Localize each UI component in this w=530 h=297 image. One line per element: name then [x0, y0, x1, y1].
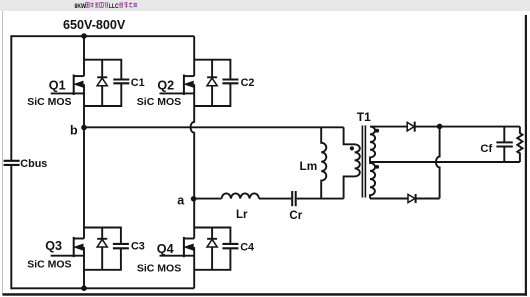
svg-text:b: b [70, 124, 78, 138]
frame left border [2, 11, 3, 295]
load resistor [517, 127, 522, 162]
svg-text:C1: C1 [131, 77, 145, 89]
diode D1 [407, 122, 415, 132]
wire Cr to primary [297, 198, 344, 200]
capacitor C1 [113, 80, 129, 84]
svg-text:a: a [177, 193, 185, 207]
snubber box Q4 [194, 228, 230, 244]
node: top bus junction [81, 33, 87, 39]
node a junction [191, 196, 197, 202]
svg-text:SiC MOS: SiC MOS [27, 258, 71, 270]
svg-text:C2: C2 [241, 77, 255, 89]
svg-text:SiC MOS: SiC MOS [137, 96, 181, 108]
capacitor Cr [292, 191, 296, 206]
body diode of Q3 [97, 228, 107, 270]
svg-text:650V-800V: 650V-800V [63, 18, 126, 32]
wire left leg: Q1 source through node b to Q3 drain [83, 84, 85, 238]
transformer T1 secondary windings (center tapped) [370, 127, 375, 199]
wire Q1 drain from top bus [83, 36, 85, 76]
snubber box Q1 (top, right with C1 gap, bottom) [84, 60, 121, 79]
wire secondary top to D1 [370, 126, 407, 128]
wire Lr to Cr [259, 198, 291, 200]
body diode of Q4 [207, 228, 217, 270]
transformer T1 core [361, 125, 363, 197]
wire node a to Lr [194, 198, 221, 200]
title bar [0, 0, 530, 11]
transistor Q3 [51, 237, 84, 257]
svg-text:T1: T1 [357, 110, 371, 124]
inductor Lm [321, 127, 326, 198]
wire top bus [11, 35, 194, 37]
capacitor Cbus [4, 161, 20, 165]
polarity dot T1 secondary top [375, 129, 379, 133]
capacitor C3 [113, 244, 129, 248]
node: bottom bus junction [81, 285, 87, 291]
snubber box Q3 [84, 228, 121, 244]
svg-text:Lm: Lm [300, 159, 318, 173]
svg-text:C4: C4 [240, 242, 254, 254]
wire D2 to return vertical [416, 198, 440, 200]
svg-text:Q2: Q2 [157, 78, 174, 92]
body diode of Q2 [207, 60, 217, 106]
wire node b to transformer [84, 126, 344, 128]
wire secondary bottom to D2 [370, 198, 408, 200]
snubber box Q2 [194, 60, 230, 79]
svg-text:LLC: LLC [109, 4, 119, 10]
capacitor C2 [222, 80, 238, 84]
frame bottom border [3, 293, 528, 296]
svg-text:Lr: Lr [236, 209, 248, 221]
transistor Q1 [51, 75, 84, 96]
svg-text:Q1: Q1 [49, 78, 66, 92]
wire left bus upper [10, 35, 12, 160]
body diode of Q1 [97, 60, 107, 106]
wire bottom bus [11, 287, 194, 289]
svg-text:8KW: 8KW [75, 4, 87, 10]
wire Q2 drain from top bus [193, 36, 195, 76]
wire rectifier return vertical with hop over center rail [436, 126, 440, 198]
polarity dot T1 primary [350, 146, 354, 150]
svg-text:Q4: Q4 [157, 242, 174, 256]
diode D2 [408, 194, 416, 203]
wire Q4 source to bottom bus [193, 247, 195, 288]
capacitor C4 [222, 244, 238, 248]
transistor Q4 [160, 237, 195, 257]
svg-text:Q3: Q3 [45, 239, 62, 253]
polarity dot T1 secondary bottom [375, 165, 379, 169]
node: rectifier output junction [437, 124, 443, 130]
svg-text:C3: C3 [131, 241, 145, 253]
svg-text:Cbus: Cbus [20, 158, 47, 170]
svg-text:Cf: Cf [480, 143, 492, 155]
svg-text:SiC MOS: SiC MOS [27, 96, 71, 108]
wire left bus lower [10, 165, 12, 289]
frame right border [525, 15, 527, 296]
svg-text:Cr: Cr [289, 210, 302, 222]
wire right leg: Q2 source to node a to Q4 drain, with crossover hop over b-wire [191, 84, 195, 238]
wire Q3 source to bottom bus [83, 247, 85, 288]
svg-text:SiC MOS: SiC MOS [137, 262, 181, 274]
transistor Q2 [160, 75, 195, 96]
inductor Lr [222, 193, 259, 198]
node b junction [81, 125, 87, 131]
title text 8KW SiC full-bridge LLC solution [75, 2, 138, 10]
wire center tap rail [370, 161, 520, 163]
wire output junction to load (top rail) [440, 126, 520, 128]
wire D1 to output junction [415, 126, 440, 128]
capacitor Cf [496, 127, 512, 162]
transformer T1 primary winding [344, 127, 360, 198]
